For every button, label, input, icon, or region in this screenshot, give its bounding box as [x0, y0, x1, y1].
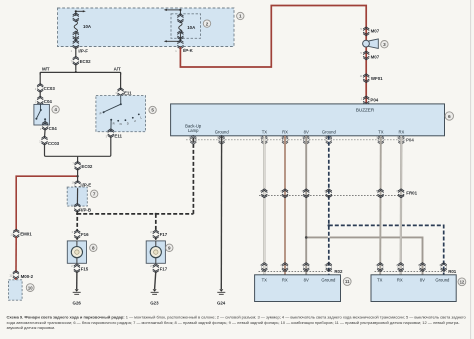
circled 3 [381, 41, 388, 48]
connector EC02 (top) [71, 56, 92, 65]
circled 7 [91, 190, 98, 197]
svg-text:TX: TX [262, 129, 268, 134]
wire: buzzer ground to G24 [220, 136, 222, 289]
node label M/T [42, 66, 50, 71]
node label A/T [114, 66, 121, 71]
wire: red feed I/P-K to buzzer P04 [180, 6, 366, 104]
svg-text:2: 2 [206, 21, 209, 26]
svg-text:1: 1 [239, 14, 242, 19]
instrument cluster (item 10) [9, 278, 23, 300]
svg-text:TX: TX [262, 277, 268, 282]
svg-text:5: 5 [151, 108, 154, 113]
svg-text:WF01: WF01 [371, 76, 383, 81]
svg-text:6: 6 [448, 114, 451, 120]
svg-text:8: 8 [92, 246, 95, 251]
svg-text:M07: M07 [371, 55, 380, 60]
connector EM01 [10, 229, 32, 238]
wire: dashed drop to left rear lamp [155, 213, 157, 231]
svg-text:C04: C04 [49, 126, 58, 131]
fuse F1 10A [73, 11, 92, 41]
connector CC03 (M/T lower) [39, 136, 59, 146]
caption [7, 315, 467, 331]
wire: TX to left sensor (gray-tan) [379, 136, 382, 275]
svg-text:G26: G26 [73, 301, 82, 306]
connector F15 [71, 264, 89, 273]
connector E11 (range switch in) [115, 88, 132, 97]
connector row R02 [259, 263, 344, 274]
parking assist unit (item 6) [171, 104, 445, 136]
svg-text:R: R [113, 121, 115, 125]
svg-text:E11: E11 [124, 90, 132, 95]
svg-text:Ground: Ground [321, 277, 336, 282]
connector P04 (top) [361, 96, 379, 105]
power connector box (item 2) [171, 14, 201, 39]
connector E11 (range switch out) [106, 129, 123, 139]
connector I/P-E [72, 180, 92, 189]
svg-text:F15: F15 [81, 266, 89, 271]
svg-text:Lamp: Lamp [188, 128, 199, 133]
svg-text:8V: 8V [420, 277, 425, 282]
circled 9 [166, 244, 173, 251]
svg-text:10A: 10A [83, 24, 92, 29]
svg-text:10A: 10A [187, 25, 196, 30]
wire [39, 91, 41, 98]
svg-text:CC03: CC03 [44, 86, 56, 91]
node: M/T-A/T merge [77, 156, 79, 163]
circled 12 [458, 278, 466, 286]
svg-text:P: P [100, 112, 102, 116]
connector I/P-F [71, 40, 89, 53]
svg-text:3: 3 [383, 42, 386, 47]
svg-text:Ground: Ground [322, 130, 337, 135]
connector M07 (above buzzer) [360, 27, 379, 36]
wire: EC02 down to I/P-E [77, 169, 79, 182]
svg-text:Ground: Ground [435, 277, 450, 282]
connector row FR01 [259, 189, 418, 198]
svg-text:8V: 8V [304, 277, 309, 282]
circled 8 [90, 244, 97, 251]
svg-text:10: 10 [28, 285, 33, 290]
connector row R01 [375, 263, 457, 274]
wire: M/T branch down [39, 72, 41, 85]
connector F17 (lamp out) [150, 264, 168, 273]
svg-text:RX: RX [398, 129, 404, 134]
wire: A/T branch down [120, 72, 122, 89]
svg-text:7: 7 [93, 192, 96, 197]
svg-text:I/P-F: I/P-F [78, 48, 88, 53]
bus arrow below fuse F2 [164, 40, 181, 42]
circled 4 [52, 106, 59, 113]
svg-text:G23: G23 [150, 301, 159, 306]
svg-text:M00-2: M00-2 [21, 274, 34, 279]
buzzer BZ1 (item 3) [363, 39, 379, 49]
svg-text:RX: RX [282, 129, 288, 134]
junction block (item 7) [67, 187, 87, 206]
svg-text:звуковой датчик парковки.: звуковой датчик парковки. [7, 325, 56, 330]
circled 5 [149, 106, 156, 113]
circled 10 [26, 284, 34, 292]
svg-text:M07: M07 [371, 28, 380, 33]
svg-text:F17: F17 [160, 266, 168, 271]
back-up lamp switch S1 (item 4) [34, 104, 50, 125]
right parking sensor (item 11) [255, 275, 341, 302]
connector C04 (switch out) [40, 121, 57, 131]
left parking sensor (item 12) [371, 275, 456, 302]
circled 2 [203, 20, 210, 27]
wire into right rear lamp [76, 238, 78, 241]
connector M07 (below buzzer) [360, 51, 379, 60]
svg-text:хода автоматической трансмисси: хода автоматической трансмиссии; 6 — бло… [7, 320, 461, 325]
svg-text:D: D [127, 122, 129, 126]
connector I/P-B [71, 203, 91, 212]
wire: red feed to instrument cluster [16, 175, 79, 231]
svg-text:EC02: EC02 [80, 59, 92, 64]
svg-text:N: N [120, 122, 122, 126]
svg-text:8V: 8V [304, 129, 309, 134]
svg-text:I/P-K: I/P-K [183, 48, 194, 53]
wire: back-up lamp net (dashed) I/P-B down and across [76, 211, 193, 231]
svg-text:R02: R02 [334, 269, 343, 274]
bus arrow above fuse F2 [164, 9, 182, 11]
bus arrow above fuse F1 [75, 10, 86, 12]
wire to ground G23 [155, 271, 156, 289]
svg-text:P04: P04 [406, 138, 414, 143]
wire: TX to right sensor (white) [263, 136, 265, 275]
right rear lamp (item 8) [67, 241, 86, 263]
svg-text:A/T: A/T [114, 66, 121, 71]
svg-text:FR01: FR01 [406, 190, 417, 195]
wire: A/T to merge junction [78, 136, 111, 156]
svg-text:E11: E11 [114, 134, 122, 139]
svg-text:RX: RX [282, 277, 288, 282]
wire [44, 129, 47, 138]
svg-text:C04: C04 [44, 99, 53, 104]
svg-text:I/P-B: I/P-B [81, 208, 91, 213]
connector F17 (lamp in) [150, 230, 168, 239]
svg-text:G24: G24 [217, 301, 226, 306]
connector EC02 (bottom) [72, 161, 93, 170]
wire: RX to right sensor (brown) [284, 136, 286, 275]
wire: I/P-F to EC02 [75, 47, 77, 58]
svg-text:12: 12 [460, 280, 465, 285]
svg-text:Ground: Ground [215, 130, 230, 135]
svg-text:EC02: EC02 [81, 164, 93, 169]
connector F16 [72, 230, 90, 239]
svg-text:9: 9 [168, 246, 171, 251]
svg-text:Схема 9. Фонари света заднего: Схема 9. Фонари света заднего хода и пар… [7, 315, 467, 320]
svg-text:EM01: EM01 [20, 232, 32, 237]
wire: RX to left sensor (light gray) [400, 136, 403, 275]
connector C04 (switch in) [35, 96, 52, 105]
svg-text:TX: TX [377, 277, 383, 282]
svg-text:RX: RX [397, 277, 403, 282]
connector CC03 (M/T upper) [35, 84, 56, 93]
wire into left rear lamp [155, 238, 157, 241]
connector I/P-K [175, 40, 193, 53]
ground G26 [73, 289, 82, 305]
wire: 8V supply (gray) with branch [305, 136, 423, 275]
svg-text:TX: TX [378, 129, 384, 134]
svg-text:M/T: M/T [42, 66, 50, 71]
svg-text:R01: R01 [448, 269, 457, 274]
ground G24 [217, 289, 226, 305]
transmission range switch S2 (item 5) [96, 96, 146, 132]
svg-text:CC03: CC03 [48, 141, 60, 146]
circled 1 [237, 12, 244, 19]
svg-text:I/P-E: I/P-E [81, 182, 91, 187]
wire to ground G26 [76, 271, 78, 289]
connector M00-2 [9, 271, 33, 280]
circled 11 [343, 278, 351, 286]
svg-text:F17: F17 [160, 232, 168, 237]
wire: dashed riser to buzzer Back-Up Lamp pin [192, 136, 194, 214]
connector WF01 [360, 74, 383, 83]
fuse box U1 (interior junction block, item 1) [58, 8, 235, 47]
svg-text:F16: F16 [81, 232, 89, 237]
circled 6 [445, 112, 453, 120]
wire: M/T to merge junction [45, 144, 78, 157]
svg-text:BUZZER: BUZZER [356, 107, 375, 112]
fuse F2 10A [177, 10, 196, 41]
wire: split bar to M/T and A/T [40, 64, 120, 75]
left rear lamp (item 9) [146, 241, 165, 263]
page right edge line [470, 0, 472, 339]
connector row P04 (bottom of unit) [186, 135, 414, 144]
wire: sensor ground (navy dashed) with branch [328, 136, 444, 275]
svg-text:11: 11 [345, 279, 350, 284]
ground G23 [150, 289, 159, 305]
svg-text:4: 4 [54, 107, 57, 112]
svg-text:P04: P04 [370, 98, 378, 103]
wire: red to cluster [15, 237, 17, 272]
